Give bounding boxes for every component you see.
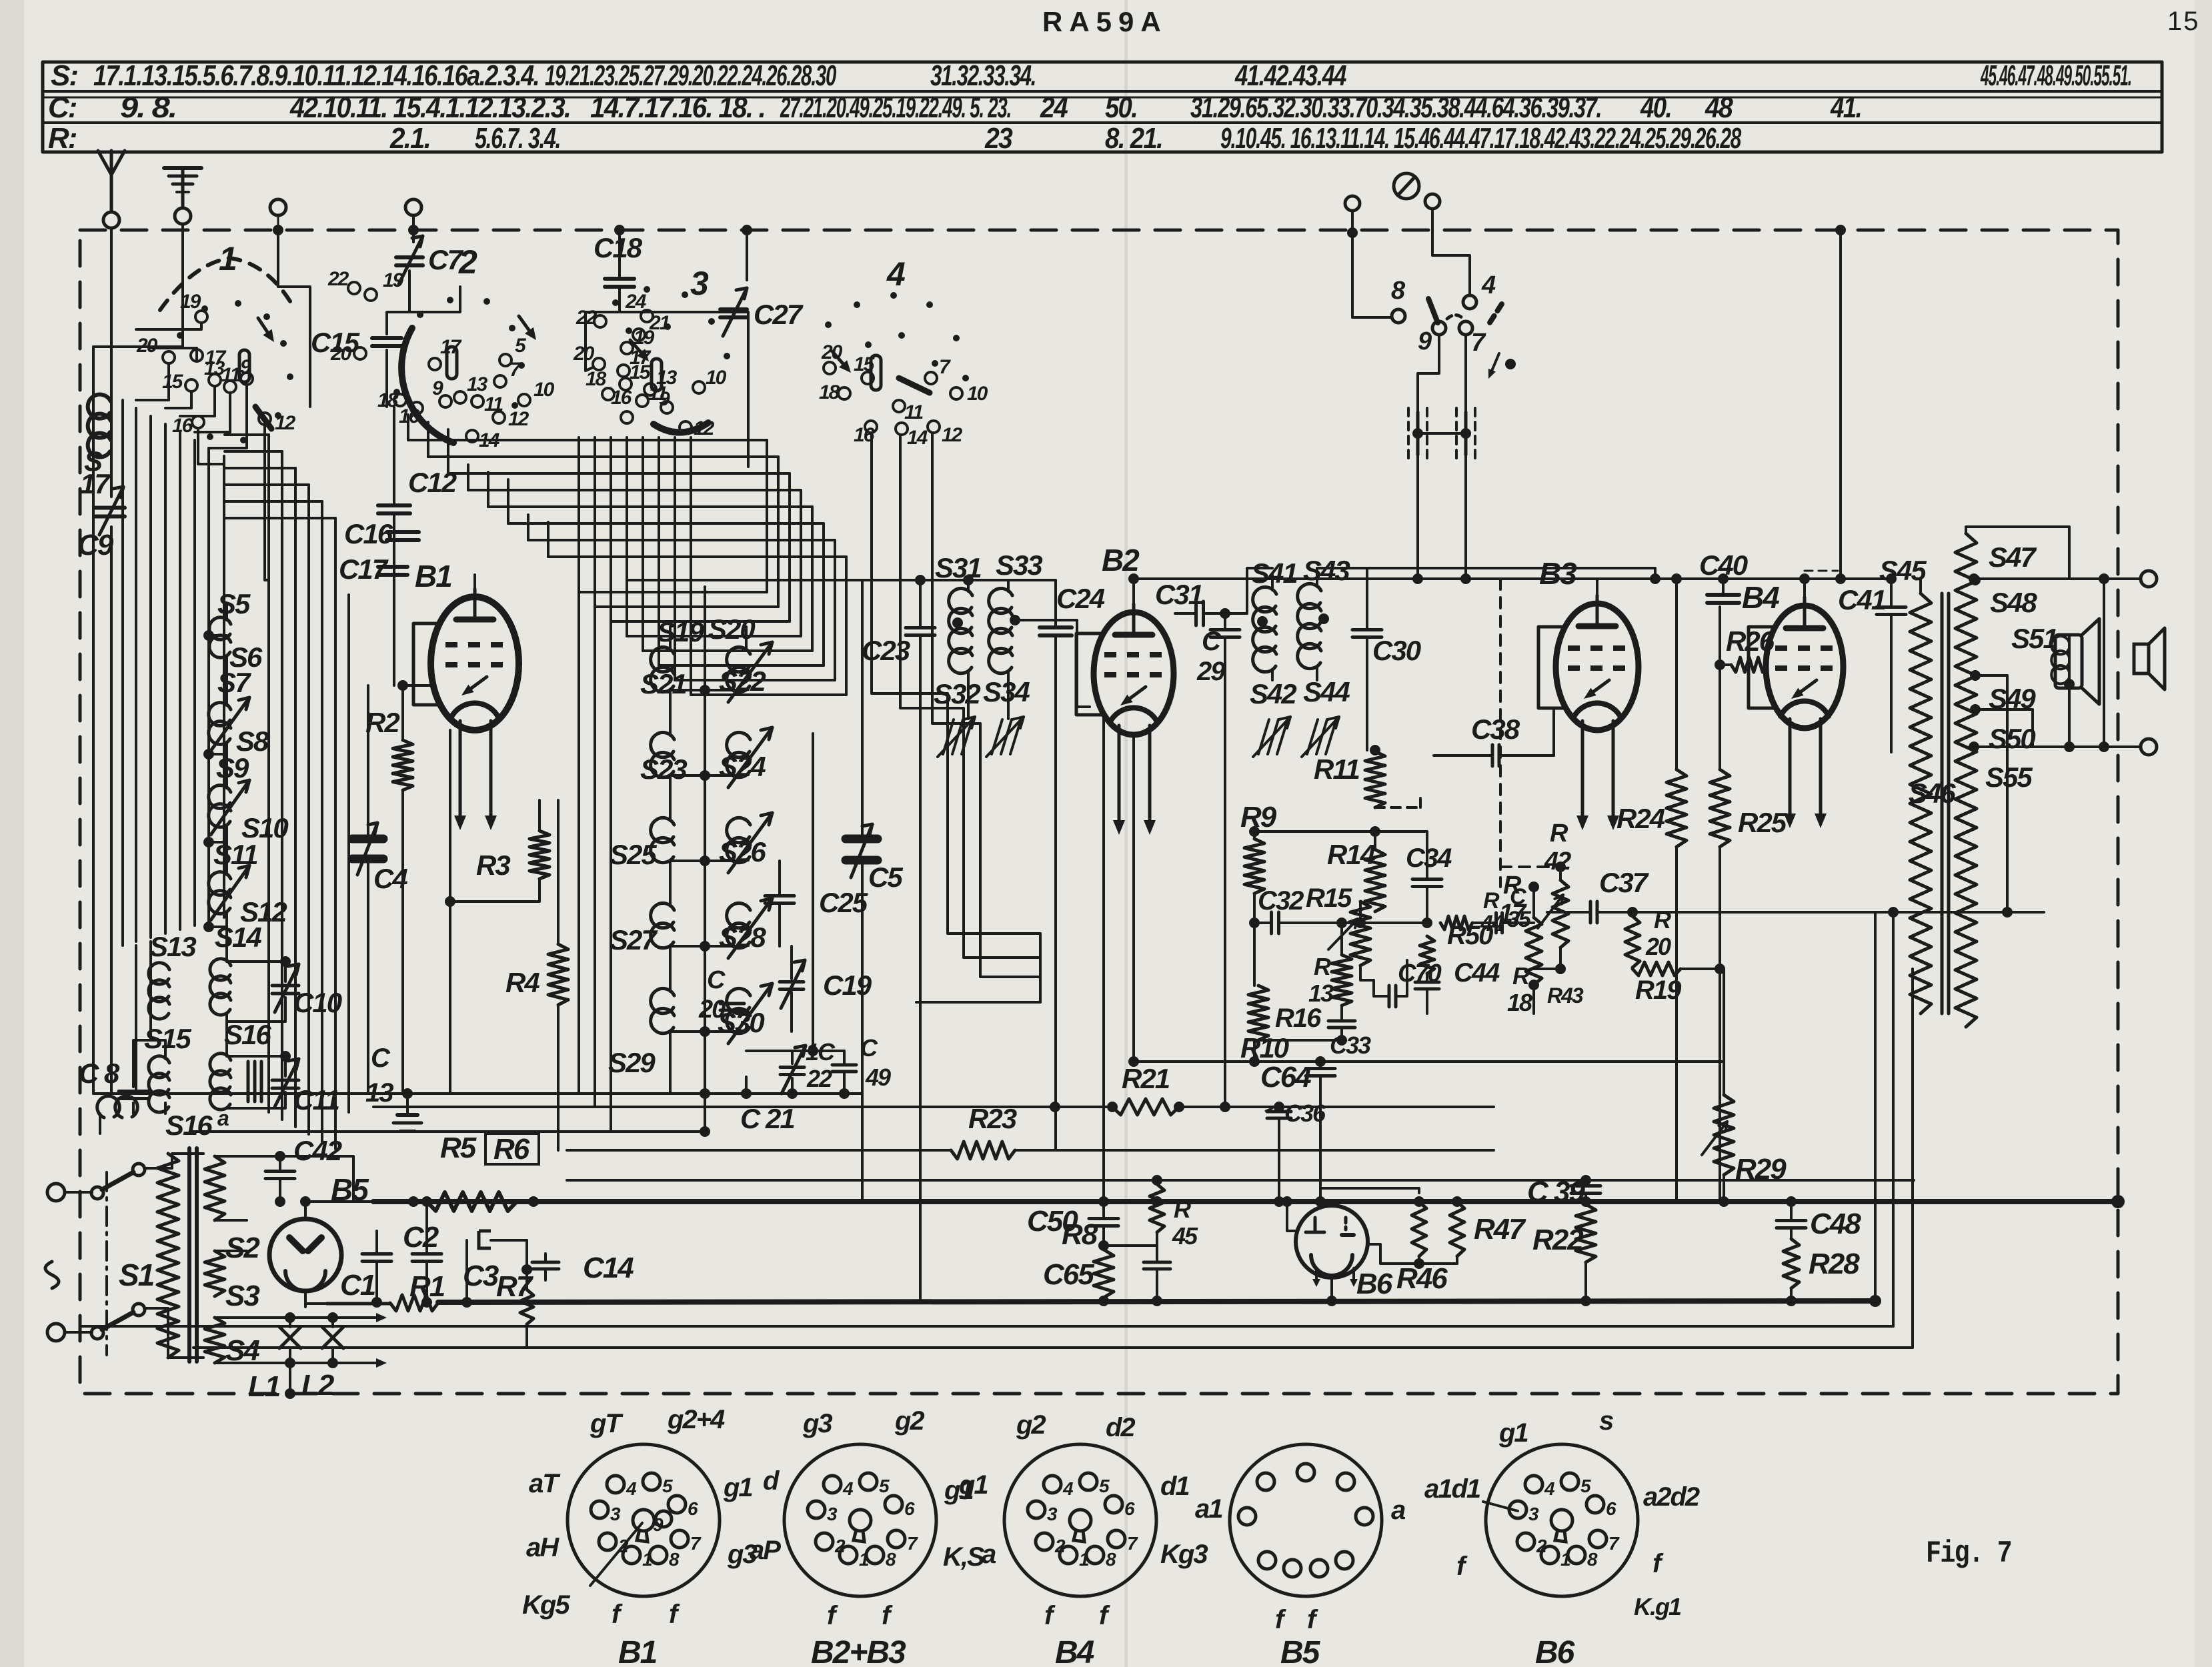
wire [407,415,409,440]
wire [900,435,1040,958]
svg-text:20: 20 [1645,933,1671,960]
svg-text:17: 17 [1499,900,1527,928]
wire [1426,974,1428,982]
svg-text:29: 29 [1196,657,1226,686]
resistor R24 [1667,769,1687,847]
resistor R47 [1450,1202,1464,1256]
tap arrow S2 [215,1219,247,1222]
wire [528,539,835,541]
svg-text:22: 22 [806,1065,832,1092]
switch wafer 1 contacts [195,311,207,323]
speaker [2134,644,2149,673]
svg-text:B1: B1 [618,1635,657,1667]
wire [872,433,1040,934]
tube B2 [1094,612,1174,735]
svg-text:31.29.65.32.30.33.70.34.35.38.: 31.29.65.32.30.33.70.34.35.38.44.64.36.3… [1190,91,1601,124]
terminal [1425,194,1440,209]
svg-text:S13: S13 [149,931,196,962]
capacitor C1 [362,1252,391,1256]
wire [1426,831,1428,879]
wire [1287,1202,1296,1231]
capacitor C34 [1412,878,1442,881]
svg-text:C18: C18 [594,232,643,263]
capacitor C42 [265,1170,295,1173]
svg-text:C36: C36 [1284,1100,1326,1127]
terminal [1345,196,1360,211]
wire [1102,1202,1105,1218]
wire [164,1103,167,1114]
wire [1493,1106,1494,1108]
wire [861,580,864,839]
svg-text:gT: gT [590,1409,624,1438]
svg-text:13: 13 [467,373,488,395]
anode line [1134,577,1891,580]
mains switch 1 [91,1187,103,1199]
svg-text:R: R [1512,962,1530,990]
wire [527,515,529,540]
rail [193,1130,705,1133]
node S17 wire [111,228,112,397]
svg-text:4: 4 [626,1478,637,1499]
capacitor C15 [372,336,401,340]
terminal out1 [2141,571,2157,587]
coil S14 [210,959,231,1015]
svg-text:R7: R7 [496,1270,534,1303]
wire [586,312,593,371]
wire [967,580,970,591]
wire [1132,579,1135,604]
wire [165,391,191,408]
svg-text:R25: R25 [1738,807,1787,838]
wire [281,451,283,1120]
wire [1559,867,1562,880]
svg-text:9: 9 [659,388,670,410]
svg-text:S2: S2 [225,1232,260,1264]
wire [618,287,621,312]
switch wafer 3 contacts [641,310,653,322]
svg-text:2: 2 [834,1536,846,1556]
svg-text:1: 1 [642,1549,652,1570]
wire [1719,607,1721,769]
wire [1533,969,1534,985]
wire [267,435,270,1112]
junction [408,225,419,235]
capacitor C44 [1415,981,1439,984]
wire [110,527,113,1094]
var core S44 [1307,719,1318,754]
lamp top line [215,1316,363,1319]
mains switch 2 [91,1327,103,1339]
svg-text:C19: C19 [823,970,872,1001]
svg-text:C: C [860,1034,878,1062]
wire [227,580,269,603]
wire [1675,579,1678,769]
wire [845,557,848,695]
svg-text:49: 49 [865,1064,891,1091]
wire [209,841,227,844]
wire [406,1094,409,1115]
svg-text:R4: R4 [505,967,539,998]
socket B1 key line [590,1523,642,1586]
wire [144,1308,203,1358]
mains terminal 2 [47,1324,65,1341]
svg-text:19: 19 [180,291,201,313]
wire [508,522,824,525]
svg-text:g3: g3 [802,1409,832,1438]
svg-text:45.46.47.48.49.50.55.51.: 45.46.47.48.49.50.55.51. [1980,59,2131,92]
wire [1332,1194,1419,1206]
svg-text:R24: R24 [1616,803,1665,834]
svg-text:42.10.11. 15.4.1.12.13.2.3.: 42.10.11. 15.4.1.12.13.2.3. [289,91,570,124]
capacitor C41 [1877,605,1906,609]
wire [367,685,369,839]
wire [1253,831,1256,839]
wire [822,523,825,665]
switch wafer 1 dots [177,332,183,339]
wire [488,505,812,508]
svg-text:R1: R1 [409,1270,445,1303]
wire [1472,922,1495,924]
svg-text:B2: B2 [1102,543,1140,577]
capacitor C50 [1089,1217,1118,1220]
svg-text:R: R [1314,953,1331,980]
svg-text:C11: C11 [293,1084,339,1116]
tube B1 [431,597,519,730]
wire [811,507,814,651]
wire [1596,579,1598,595]
wire [135,408,137,942]
wire [375,1231,378,1254]
svg-text:B6: B6 [1535,1635,1575,1667]
svg-text:15: 15 [162,371,184,393]
capacitor C23 [906,626,935,629]
wire [227,962,285,982]
coil S5-S6 [209,617,231,657]
svg-text:22: 22 [327,268,349,290]
coil S15 [149,1056,169,1112]
wire [209,926,227,928]
wire [223,456,225,918]
svg-text:a: a [217,1106,229,1130]
resistor R42 [1552,880,1568,948]
switch wafer 4 rotor slot [871,355,881,390]
svg-text:C12: C12 [408,467,457,498]
svg-text:1: 1 [1079,1549,1089,1570]
svg-text:C30: C30 [1372,635,1421,666]
wire [1720,663,1731,666]
wire [1133,1061,1134,1062]
svg-text:1: 1 [859,1549,869,1570]
switch wafer 2 wiper arc [401,328,453,443]
wire [227,998,285,1022]
resistor R25 [1710,769,1730,847]
rail [373,1106,1112,1108]
lamp bottom line [215,1362,363,1364]
wire [704,587,706,1132]
wire [448,472,790,475]
switch wafer 2 wiper arrow [519,316,529,330]
junction [1869,1295,1881,1307]
svg-text:R2: R2 [365,707,399,738]
switch wafer 4 dots [825,321,832,328]
wire [788,473,791,621]
capacitor C36 [1267,1110,1291,1114]
antenna symbol [110,165,113,212]
svg-text:C27: C27 [754,299,804,330]
varcap C11 [272,1079,299,1082]
svg-text:a1: a1 [1195,1494,1222,1524]
junction [408,1196,419,1207]
svg-text:a1d1: a1d1 [1424,1474,1480,1504]
coil S43 [1298,583,1321,668]
coil S17 [88,395,111,457]
wire [1366,587,1368,629]
winding S1 [157,1154,179,1358]
svg-text:K.g1: K.g1 [1634,1593,1681,1620]
wire [1559,948,1562,969]
wire [289,1363,291,1394]
wire [408,271,411,312]
svg-text:50.: 50. [1105,91,1137,124]
wire [2027,1150,2028,1326]
wire [674,437,676,680]
junction [2111,1195,2125,1208]
svg-text:R8: R8 [1062,1218,1098,1251]
wire [1839,230,1842,579]
wire [627,580,1056,627]
svg-text:S16: S16 [165,1110,213,1141]
svg-text:S42: S42 [1250,678,1296,709]
wire [1803,579,1806,597]
wire [627,635,801,637]
svg-text:C 8: C 8 [79,1058,120,1089]
svg-text:48: 48 [1705,91,1733,124]
svg-text:C25: C25 [819,887,868,918]
wire [164,424,167,934]
socket B5 [1230,1444,1382,1596]
svg-text:5.6.7. 3.4.: 5.6.7. 3.4. [475,122,560,155]
svg-text:R:: R: [48,122,77,155]
wire [669,1077,672,1094]
svg-text:S33: S33 [996,549,1042,581]
svg-text:S9: S9 [216,752,249,783]
coil S16 [210,1054,231,1110]
svg-text:R28: R28 [1809,1248,1860,1280]
socket B6 key line [1483,1502,1518,1511]
wire [690,437,692,695]
wire [467,465,469,490]
resistor R23 [951,1142,1015,1159]
table line S/C [43,90,2162,93]
svg-text:17: 17 [80,468,111,499]
wire [1631,912,1634,916]
wire [304,1291,307,1307]
capacitor C18 [605,277,634,281]
svg-text:R10: R10 [1240,1032,1289,1064]
svg-text:C41: C41 [1838,584,1886,615]
svg-text:g2: g2 [1016,1410,1046,1440]
wire [305,1200,373,1203]
rail [1179,1106,1494,1108]
wire [132,1103,135,1114]
rail heater 1 [80,1325,1893,1328]
wire [1317,568,1367,587]
svg-text:d: d [763,1466,780,1496]
wire [800,490,802,636]
wire [450,879,539,902]
coil S29 [651,988,674,1033]
core S16 [247,1062,250,1102]
wire [1464,335,1467,413]
lamp L2 [322,1327,343,1348]
winding S3 [205,1251,225,1296]
label R6 box [485,1134,539,1164]
wire [626,437,628,636]
coil S16a [97,1096,137,1118]
wire [393,513,395,685]
wire [1374,750,1376,751]
svg-text:2: 2 [1054,1536,1066,1556]
svg-text:C15: C15 [311,327,360,358]
switch contact 8 [1392,309,1405,323]
wire [307,485,310,1134]
resistor R29 [1714,1095,1734,1175]
svg-text:C44: C44 [1454,958,1500,988]
svg-text:Fig. 7: Fig. 7 [1926,1536,2011,1571]
svg-text:2.1.: 2.1. [389,122,430,155]
wire [1054,773,1057,1150]
wire [791,1078,794,1094]
lamp arrow top [363,1316,376,1319]
capacitor C14 [532,1261,559,1264]
resistor R9 [1244,839,1264,894]
svg-text:d2: d2 [1106,1413,1135,1442]
svg-text:12: 12 [508,408,529,430]
wire [304,1202,307,1219]
wire [408,439,767,441]
svg-text:aP: aP [750,1536,781,1565]
core [1941,593,1944,1014]
svg-text:4: 4 [1481,271,1496,299]
ground wire [181,224,184,347]
varcap C9 [95,506,125,510]
capacitor C49 [832,1064,856,1067]
wire [595,605,778,608]
wire [578,592,580,1094]
svg-text:18: 18 [1507,989,1532,1016]
wire [225,743,228,788]
wire [209,385,247,448]
wire [1367,1188,1457,1193]
svg-text:S23: S23 [640,753,687,785]
wire [1464,455,1467,579]
svg-text:C: C [371,1044,391,1073]
svg-text:11: 11 [904,401,923,423]
wire [225,450,282,453]
wire [135,940,137,941]
wire [225,483,309,486]
B6 internals [1314,1218,1317,1232]
dash arc [1447,315,1464,320]
wire [277,215,279,230]
wire [1416,455,1419,579]
junction [273,225,283,235]
svg-text:20: 20 [573,343,595,365]
svg-text:R: R [1174,1196,1191,1223]
svg-text:K,S: K,S [943,1542,985,1572]
switch wafer 4 wiper [899,378,930,393]
tube B5 [269,1219,341,1291]
wire [1104,1244,1157,1247]
svg-text:C34: C34 [1406,844,1452,873]
svg-text:9.10.45. 16.13.11.14. 15.46.44: 9.10.45. 16.13.11.14. 15.46.44.47.17.18.… [1220,122,1742,155]
spkr transformer S51 [2055,635,2082,688]
resistor R4 [548,944,568,1005]
svg-text:4: 4 [1544,1478,1555,1499]
switch contact 4 [1463,295,1476,309]
wire [812,733,814,1051]
wire [180,386,215,416]
svg-text:19.21.23.25.27.29.20.22.24.26.: 19.21.23.25.27.29.20.22.24.26.28.30 [545,59,837,92]
svg-text:17.1.13.15.5.6.7.8.9.10.11.12.: 17.1.13.15.5.6.7.8.9.10.11.12.14.16.16a.… [93,59,539,92]
wire [610,621,612,1132]
switch wafer 1 wiper [255,407,271,429]
wire [1374,831,1376,850]
wire [1790,1202,1793,1220]
svg-text:S50: S50 [1989,723,2035,754]
svg-text:C7: C7 [428,244,463,275]
wire [468,489,801,491]
svg-text:S55: S55 [1985,761,2033,793]
svg-text:R6: R6 [493,1133,530,1166]
svg-text:S15: S15 [144,1023,191,1054]
wire [1722,579,1725,595]
socket B4 [1004,1444,1156,1596]
svg-text:R16: R16 [1275,1004,1322,1033]
wire [264,580,265,600]
varcap C5 [846,835,878,844]
wire [209,753,227,755]
capacitor C40 [1707,593,1739,597]
wire [347,595,350,1112]
wire [1254,1039,1342,1042]
svg-text:R5: R5 [440,1132,477,1164]
var core S34 [992,719,1002,754]
svg-text:27.21.20.49.25.19.22.49. 5. 23: 27.21.20.49.25.19.22.49. 5. 23. [780,91,1011,124]
capacitor C39 [1571,1184,1600,1188]
pot R15 [1350,902,1370,966]
wire [198,428,224,464]
svg-text:42: 42 [1544,848,1571,876]
svg-text:14.7.17.16. 18. .: 14.7.17.16. 18. . [590,91,765,124]
svg-text:S:: S: [51,59,77,92]
svg-text:C5: C5 [868,862,903,893]
svg-text:B2+B3: B2+B3 [811,1635,906,1667]
capacitor C48 [1777,1219,1806,1222]
wire [1432,209,1470,295]
resistor R16 [1248,986,1268,1040]
wire [225,656,228,705]
svg-text:S22: S22 [719,665,766,697]
resistor R5/R6 [427,1192,517,1211]
wire [777,457,780,607]
svg-text:40.: 40. [1640,91,1671,124]
resistor R13 [1332,955,1352,1006]
rail [93,1092,670,1095]
wire [747,312,750,467]
svg-text:g1: g1 [958,1470,988,1500]
svg-text:C2: C2 [403,1221,439,1254]
